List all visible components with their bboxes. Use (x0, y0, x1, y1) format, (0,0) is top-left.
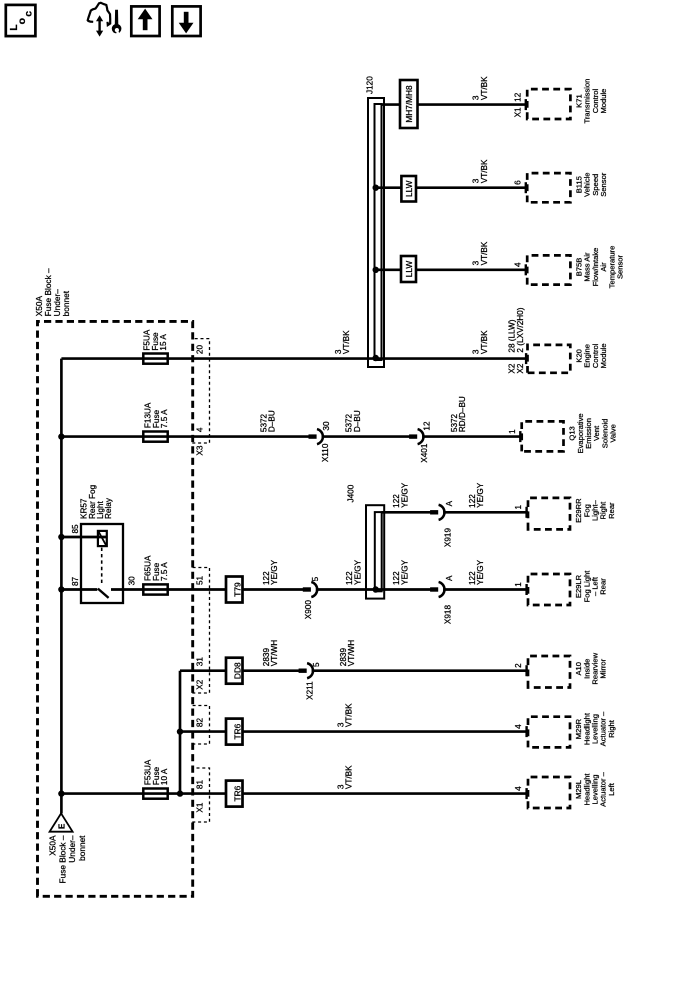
svg-text:VT/WH: VT/WH (347, 640, 356, 666)
svg-text:1: 1 (508, 429, 517, 434)
svg-text:12: 12 (513, 92, 522, 102)
svg-text:Module: Module (599, 343, 608, 368)
svg-text:YE/GY: YE/GY (270, 559, 279, 585)
svg-text:VT/BK: VT/BK (480, 159, 489, 183)
svg-text:10 A: 10 A (160, 768, 169, 785)
svg-text:81: 81 (196, 780, 205, 790)
svg-text:Valve: Valve (609, 424, 618, 442)
svg-text:X919: X919 (444, 528, 453, 548)
svg-text:J120: J120 (365, 76, 374, 94)
svg-text:VT/BK: VT/BK (345, 703, 354, 727)
svg-text:51: 51 (196, 575, 205, 585)
svg-text:7.5 A: 7.5 A (160, 562, 169, 581)
svg-text:X900: X900 (304, 600, 313, 620)
svg-text:Right: Right (607, 719, 616, 738)
svg-text:Rear: Rear (607, 502, 616, 519)
svg-text:X3: X3 (196, 445, 205, 455)
svg-text:VT/BK: VT/BK (480, 76, 489, 100)
svg-text:o: o (17, 18, 28, 24)
svg-text:Sensor: Sensor (599, 172, 608, 197)
svg-text:D–BU: D–BU (268, 410, 277, 432)
svg-text:T79: T79 (233, 582, 243, 597)
svg-text:X2: X2 (196, 679, 205, 689)
svg-text:87: 87 (71, 576, 80, 586)
svg-text:12: 12 (423, 421, 432, 431)
svg-text:Mirror: Mirror (599, 658, 608, 678)
svg-text:X1: X1 (196, 802, 205, 812)
svg-text:A: A (445, 500, 454, 506)
svg-text:VT/BK: VT/BK (345, 765, 354, 789)
svg-text:30: 30 (322, 421, 331, 431)
svg-text:MH7/MH8: MH7/MH8 (404, 85, 414, 123)
svg-text:X2: X2 (516, 363, 525, 373)
svg-text:Left: Left (607, 782, 616, 796)
svg-text:RD/D–BU: RD/D–BU (458, 396, 467, 432)
svg-text:Fuse Block –: Fuse Block – (57, 835, 67, 883)
svg-text:A: A (445, 575, 454, 581)
svg-text:VT/BK: VT/BK (480, 241, 489, 265)
svg-text:X918: X918 (444, 605, 453, 625)
svg-text:6: 6 (513, 180, 522, 185)
svg-text:LLW: LLW (404, 180, 414, 197)
svg-text:31: 31 (196, 657, 205, 667)
svg-text:X50A: X50A (48, 835, 58, 856)
svg-text:7.5 A: 7.5 A (160, 409, 169, 428)
svg-text:E: E (58, 823, 67, 829)
svg-text:4: 4 (514, 786, 523, 791)
svg-text:Relay: Relay (104, 497, 113, 519)
svg-text:2: 2 (514, 663, 523, 668)
svg-text:30: 30 (128, 576, 137, 586)
svg-text:YE/GY: YE/GY (476, 482, 485, 508)
svg-text:4: 4 (513, 262, 522, 267)
svg-text:5: 5 (311, 576, 320, 581)
svg-text:1: 1 (514, 505, 523, 510)
svg-text:YE/GY: YE/GY (353, 559, 362, 585)
svg-text:VT/WH: VT/WH (270, 640, 279, 666)
svg-text:X211: X211 (305, 681, 314, 700)
svg-text:YE/GY: YE/GY (476, 559, 485, 585)
svg-text:1: 1 (514, 582, 523, 587)
svg-text:TR6: TR6 (233, 785, 243, 801)
svg-text:bonnet: bonnet (61, 290, 71, 316)
svg-text:J400: J400 (347, 484, 356, 502)
svg-text:Sensor: Sensor (616, 254, 625, 279)
svg-text:VT/BK: VT/BK (480, 330, 489, 354)
svg-text:YE/GY: YE/GY (400, 559, 409, 585)
svg-text:c: c (23, 11, 34, 17)
svg-text:20: 20 (196, 345, 205, 355)
svg-text:4: 4 (514, 724, 523, 729)
svg-text:X110: X110 (321, 443, 330, 462)
svg-text:LLW: LLW (404, 261, 414, 278)
svg-text:X1: X1 (513, 107, 522, 117)
svg-text:Rear: Rear (599, 578, 608, 595)
svg-text:bonnet: bonnet (77, 835, 87, 861)
svg-text:TR6: TR6 (233, 723, 243, 739)
svg-text:15 A: 15 A (159, 334, 168, 351)
svg-text:4: 4 (196, 427, 205, 432)
svg-text:82: 82 (196, 718, 205, 728)
svg-text:85: 85 (71, 524, 80, 534)
svg-text:Under–: Under– (67, 835, 77, 863)
svg-text:VT/BK: VT/BK (342, 330, 351, 354)
svg-text:5: 5 (312, 662, 321, 667)
svg-text:YE/GY: YE/GY (400, 482, 409, 508)
svg-text:DD8: DD8 (233, 662, 243, 679)
svg-text:X401: X401 (420, 443, 429, 463)
svg-text:Module: Module (599, 89, 608, 114)
svg-text:2 (LXV/2H0): 2 (LXV/2H0) (516, 307, 525, 352)
svg-text:D–BU: D–BU (353, 410, 362, 432)
